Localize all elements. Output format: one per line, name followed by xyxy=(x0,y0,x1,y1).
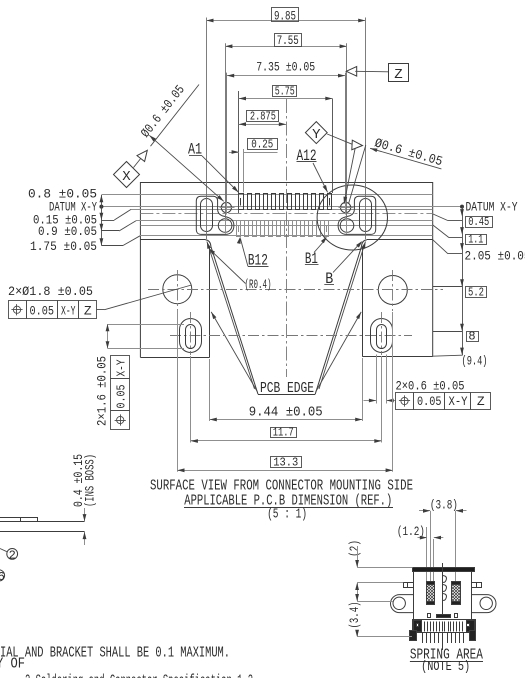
svg-text:PCB EDGE: PCB EDGE xyxy=(260,380,314,397)
svg-text:2×1.6 ±0.05: 2×1.6 ±0.05 xyxy=(95,356,110,426)
leader phi0.6 left to small hole xyxy=(149,135,223,201)
dimension 13.3 xyxy=(177,470,392,472)
svg-text:1.1: 1.1 xyxy=(468,233,483,247)
2.05 bent leader xyxy=(433,240,448,254)
svg-text:0.05: 0.05 xyxy=(417,394,442,409)
horizontal centerline through mounting holes xyxy=(148,289,443,291)
datum Y triangle xyxy=(352,140,363,150)
arrow 9.4 xyxy=(460,348,464,355)
right oblong hole outer xyxy=(371,319,393,353)
side view mid line xyxy=(0,521,85,523)
mini view: ext lines into body xyxy=(426,527,428,581)
svg-text:8: 8 xyxy=(468,330,475,344)
detail balloon ellipse around right end xyxy=(317,185,387,250)
dim text 13.3 xyxy=(271,457,302,468)
svg-text:Z: Z xyxy=(394,67,402,83)
connector body outer outline (shell footprint) xyxy=(140,183,432,358)
leader B12 xyxy=(237,237,241,244)
5.2 stub xyxy=(433,286,462,288)
dim text 5.75 xyxy=(273,86,297,97)
vertical centerline left mounting hole xyxy=(177,270,179,310)
right dimension line xyxy=(462,207,464,356)
svg-text:9.85: 9.85 xyxy=(274,8,296,23)
svg-text:Z: Z xyxy=(477,394,485,409)
mini view: right tab xyxy=(472,595,497,613)
arrow 2.05 xyxy=(460,243,464,250)
svg-text:B: B xyxy=(325,270,333,288)
left big hole xyxy=(218,219,232,233)
svg-text:1.75 ±0.05: 1.75 ±0.05 xyxy=(30,239,97,254)
vertical centerline right mounting hole xyxy=(392,270,394,311)
dim text 0.25 xyxy=(248,139,278,150)
svg-text:13.3: 13.3 xyxy=(273,455,298,469)
left oval hole pad xyxy=(201,199,213,232)
svg-text:X-Y: X-Y xyxy=(115,360,129,377)
dimension 9.44 xyxy=(210,419,363,421)
dim text 9.85 xyxy=(272,8,299,22)
extension line small circle right (7.35) xyxy=(345,73,347,202)
svg-text:X: X xyxy=(122,169,131,185)
svg-text:6: 6 xyxy=(0,570,5,584)
datum X triangle xyxy=(137,150,147,161)
datum X diamond xyxy=(114,162,140,188)
1.6 extension bottom xyxy=(108,348,185,350)
PCB EDGE leader to left slope xyxy=(207,242,255,390)
mini view: center retention key with hooks xyxy=(442,563,444,614)
extension line oval center left (9.85) xyxy=(206,18,208,240)
PCB EDGE leader to left notch wall xyxy=(211,312,257,392)
left leg inner edge (PCB notch side) xyxy=(209,247,211,358)
right mounting hole phi1.8 xyxy=(378,276,407,305)
pad row A top line (0.8 ref) xyxy=(101,194,432,196)
mini view: shield solder tabs xyxy=(410,631,417,641)
1.6 dimension line xyxy=(107,324,109,348)
mini view: stubs below strips xyxy=(428,614,431,618)
balloon 2 xyxy=(7,549,18,560)
vertical center line xyxy=(286,99,288,377)
pad A1 hole mark xyxy=(240,198,242,206)
mini view: key foot block xyxy=(437,615,451,618)
svg-text:2×0.6 ±0.05: 2×0.6 ±0.05 xyxy=(396,379,465,394)
right oval hole pad xyxy=(360,199,372,232)
0.45 ref line (dash-dot) xyxy=(140,213,432,215)
mini view: bottom comb band xyxy=(413,620,476,633)
balloon 6 xyxy=(0,570,5,581)
svg-text:DATUM X-Y: DATUM X-Y xyxy=(466,199,518,214)
0.45 bent leader xyxy=(433,214,448,221)
vertical centerline right oval xyxy=(381,312,383,355)
svg-text:Y: Y xyxy=(312,127,321,143)
0.4 dim arrows xyxy=(84,508,86,521)
extension mounting hole centers down xyxy=(177,310,179,472)
1.1 bent leader xyxy=(433,225,449,238)
PCB edge right corner arc xyxy=(362,240,367,247)
dim text 7.55 xyxy=(275,34,302,47)
pad B1 hole mark xyxy=(326,225,328,232)
svg-text:5.2: 5.2 xyxy=(468,286,484,300)
arrow 5.2 xyxy=(460,279,464,286)
mini view: comb upper teeth xyxy=(424,622,426,632)
mini view: left flange xyxy=(404,583,414,588)
PCB edge right slope xyxy=(315,247,361,395)
svg-text:11.7: 11.7 xyxy=(273,426,294,440)
extension line pad A1 (5.75/2.875/0.25) xyxy=(238,91,240,213)
dimension 7.35 +/-0.05 xyxy=(227,75,345,77)
svg-text:IAL AND BRACKET SHALL BE 0.1 M: IAL AND BRACKET SHALL BE 0.1 MAXIMUM. xyxy=(0,644,230,661)
1.1 ref line through end circles xyxy=(140,225,432,227)
mini view: right tab hole xyxy=(480,597,492,609)
PCB EDGE leader to right notch wall xyxy=(316,312,362,392)
dimension 7.55 xyxy=(225,46,347,48)
ext lines mini view xyxy=(357,567,412,569)
svg-text:(INS BOSS): (INS BOSS) xyxy=(83,454,98,507)
extension line pad A1 right edge (0.25) xyxy=(243,149,245,193)
datum X line xyxy=(134,157,143,168)
mini view: body xyxy=(414,572,472,620)
leader to left mounting hole xyxy=(97,309,105,311)
1.6 extension top xyxy=(108,324,185,326)
arrow 0.45 xyxy=(460,209,464,216)
left oblong hole inner xyxy=(186,325,196,349)
dim text 1.1 xyxy=(466,235,487,245)
dim text 5.2 xyxy=(466,287,487,298)
leader R0.4 xyxy=(209,248,216,254)
svg-text:9.44 ±0.05: 9.44 ±0.05 xyxy=(249,405,323,421)
vertical feature frame 1.6 xyxy=(111,356,130,379)
dimension 2.875 xyxy=(239,124,286,126)
datum Z triangle on extension line xyxy=(346,67,357,77)
frame cell position sym xyxy=(111,411,130,430)
leader B1 xyxy=(321,237,327,244)
datum Y diamond xyxy=(305,122,327,144)
feature frame phi1.8 xyxy=(9,301,27,319)
pad B12 hole mark xyxy=(238,225,240,232)
leader/underline phi0.6 right xyxy=(370,148,441,169)
right leg inner edge (PCB notch side) xyxy=(362,247,364,357)
mini view: comb lower teeth xyxy=(422,633,424,643)
band bottom edge right xyxy=(367,239,433,241)
leader Y xyxy=(327,134,353,145)
extension line oval center right (9.85) xyxy=(365,18,367,240)
steep leader lines right small hole xyxy=(344,144,356,204)
svg-text:(3.4): (3.4) xyxy=(347,602,362,629)
PCB edge left slope xyxy=(211,247,258,395)
horizontal centerline through ovals xyxy=(170,335,412,337)
datum X-Y line xyxy=(101,206,462,208)
PCB EDGE leader to right slope xyxy=(319,242,366,390)
mini view: right contact strip (hatched) xyxy=(452,582,461,605)
svg-text:0.05: 0.05 xyxy=(115,385,129,409)
extension line big circle right (7.55) xyxy=(346,43,348,218)
svg-text:5.75: 5.75 xyxy=(275,85,295,99)
9.4 stub xyxy=(433,355,462,356)
left shield pad outline xyxy=(196,196,234,234)
contact pad row A (A1-A12) xyxy=(239,194,244,210)
svg-text:X-Y: X-Y xyxy=(61,303,76,318)
contact pad row B (B12-B1) xyxy=(237,221,241,237)
mini view: left contact strip (hatched) xyxy=(427,582,435,605)
svg-text:0.45: 0.45 xyxy=(468,215,489,229)
1.75 bent leader xyxy=(101,245,123,247)
PCB edge left corner arc xyxy=(206,240,211,247)
side view top line xyxy=(0,517,21,519)
extension line pad A12 right (5.75) xyxy=(332,99,334,194)
dim text 8 xyxy=(467,332,479,342)
left mounting hole phi1.8 xyxy=(163,275,192,304)
right leg bottom edge xyxy=(362,356,432,358)
left dimension line xyxy=(101,195,103,246)
left leg bottom edge xyxy=(140,357,209,359)
svg-text:(2): (2) xyxy=(347,540,362,557)
band bottom edge left (2.05 ref) xyxy=(140,239,205,241)
svg-text:2.875: 2.875 xyxy=(250,110,276,124)
svg-text:2.05 ±0.05: 2.05 ±0.05 xyxy=(465,248,525,263)
arrow 0.15 down xyxy=(100,213,104,220)
datum Z box xyxy=(389,64,409,82)
feature frame 0.6 xyxy=(396,393,414,410)
pad A12 hole mark xyxy=(329,198,331,206)
extension oval centers down xyxy=(190,356,192,443)
0.6 extension lines xyxy=(376,355,378,404)
mini view: left tab hole xyxy=(393,597,405,609)
extension line big circle left (7.55) xyxy=(225,43,227,218)
leader B xyxy=(356,241,362,248)
dimension 0.25 xyxy=(229,152,239,154)
leader A12 xyxy=(313,163,328,192)
svg-text:Z: Z xyxy=(84,303,92,318)
mini view: right flange xyxy=(472,583,482,588)
svg-text:2×Ø1.8 ±0.05: 2×Ø1.8 ±0.05 xyxy=(8,284,93,299)
0.6 dimension arrows xyxy=(364,400,377,402)
svg-text:0.05: 0.05 xyxy=(30,303,55,318)
left small hole (phi 0.6) xyxy=(221,202,231,212)
leader to Z box xyxy=(355,70,388,73)
extension notch left wall down xyxy=(209,359,211,421)
svg-text:2 Soldering and Connector Spec: 2 Soldering and Connector Specification … xyxy=(25,673,253,678)
arrow 0.8 up xyxy=(100,195,104,202)
arrow 0.9 down xyxy=(100,224,104,231)
svg-text:(3.8): (3.8) xyxy=(430,497,458,512)
8 stub xyxy=(433,331,462,333)
svg-text:Y OF: Y OF xyxy=(0,655,25,672)
dimension 9.85 xyxy=(206,20,365,22)
svg-text:0.25: 0.25 xyxy=(251,137,273,151)
svg-text:B1: B1 xyxy=(305,250,318,268)
svg-text:2: 2 xyxy=(9,548,16,562)
mini view: pcb bar (filled) xyxy=(413,568,475,572)
dim text 11.7 xyxy=(271,428,297,438)
PCB edge bottom line xyxy=(258,394,315,396)
svg-text:(R0.4): (R0.4) xyxy=(245,277,272,292)
svg-text:(NOTE 5): (NOTE 5) xyxy=(421,659,470,675)
dim text 0.45 xyxy=(466,217,493,228)
svg-text:0.9 ±0.05: 0.9 ±0.05 xyxy=(38,224,97,239)
right small hole (phi 0.6) xyxy=(341,202,351,212)
pad row B top line (0.9 ref) xyxy=(136,220,433,222)
arrow 1.1 xyxy=(460,227,464,234)
dim text 2.875 xyxy=(247,111,279,122)
svg-text:7.55: 7.55 xyxy=(277,33,299,48)
right oblong hole inner xyxy=(377,325,387,349)
arrow 1.75 down xyxy=(100,238,104,245)
svg-text:X-Y: X-Y xyxy=(449,394,468,409)
right big hole xyxy=(340,219,354,233)
side view boss step xyxy=(21,518,38,522)
dimension 11.7 xyxy=(191,440,382,442)
left oblong hole outer xyxy=(180,319,202,353)
leader A1 xyxy=(202,156,239,193)
pad row B bottom line (1.75 ref) xyxy=(140,235,433,237)
0.15 bent leader xyxy=(101,220,114,222)
side view bottom line xyxy=(0,531,85,533)
dimension 5.75 xyxy=(239,98,333,100)
svg-text:A12: A12 xyxy=(297,147,317,165)
0.9 bent leader xyxy=(101,230,119,232)
vertical centerline left oval xyxy=(190,312,192,355)
right shield pad outline xyxy=(338,196,376,234)
svg-text:7.35 ±0.05: 7.35 ±0.05 xyxy=(256,60,315,75)
svg-text:(9.4): (9.4) xyxy=(462,354,488,369)
arrow 8 xyxy=(460,324,464,331)
pad row A bottom line (0.15 ref) xyxy=(131,209,433,211)
mini view: left tab xyxy=(391,595,414,613)
extension notch right wall down xyxy=(362,358,364,421)
extension line small circle left (7.35) xyxy=(226,73,228,202)
svg-text:(5 : 1): (5 : 1) xyxy=(267,507,307,523)
